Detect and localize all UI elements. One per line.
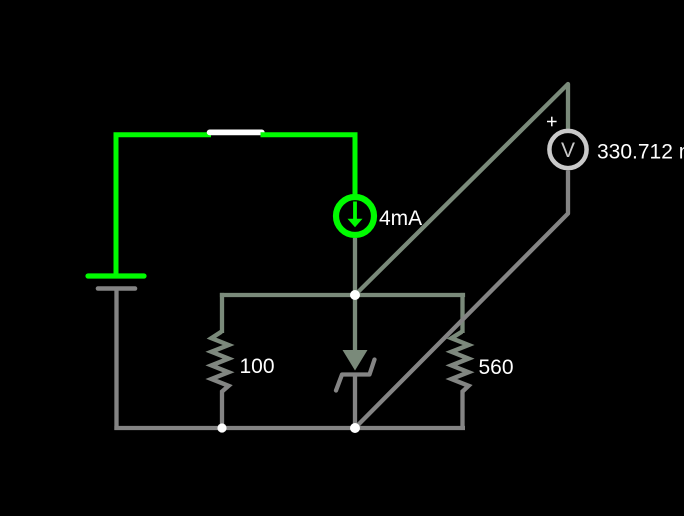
wire: battery - down to bottom-left corner (gray)	[114, 289, 118, 431]
battery V1 negative plate (short gray line)	[98, 286, 135, 291]
wire: voltmeter + probe diagonal (sage, node A to peak)	[355, 84, 568, 295]
voltmeter M1 (circle)	[549, 131, 586, 168]
wire: bottom ground rail (gray)	[114, 426, 465, 430]
wire: current source bottom to node A (sage)	[353, 238, 357, 295]
voltmeter + polarity mark	[547, 117, 557, 127]
wire: middle rail y=295 (sage)	[220, 293, 465, 297]
svg-text:V: V	[561, 139, 575, 162]
current source I1 (green circle)	[336, 197, 374, 235]
wire: 100-ohm bottom lead (gray)	[220, 391, 224, 429]
label 330.712 mV (voltmeter reading, clipped at right edge)	[597, 141, 684, 164]
wire: 100-ohm top lead (sage)	[220, 293, 224, 333]
current source I1 arrow (down)	[348, 202, 363, 228]
wire: zener top lead (sage)	[353, 295, 357, 352]
svg-text:4mA: 4mA	[379, 207, 422, 230]
label 560	[479, 356, 514, 379]
node B junction dot (355,428)	[350, 423, 360, 433]
resistor R2 560 (zigzag)	[451, 332, 468, 392]
node junction dot (222,428)	[217, 423, 226, 432]
wire: 560-ohm bottom lead (gray)	[460, 391, 464, 431]
wire: voltmeter - probe diagonal (gray, circle bottom to ground node)	[355, 171, 568, 429]
wire: zener bottom lead (gray)	[353, 375, 357, 429]
resistor R1 100 (zigzag)	[211, 332, 228, 392]
wire: top-left green L (battery + to switch left post)	[116, 135, 211, 274]
svg-text:330.712 mV: 330.712 mV	[597, 141, 684, 164]
switch S1 (closed, white lever)	[210, 130, 262, 136]
zener diode D1 cathode bar with bent ends (gray)	[336, 360, 375, 391]
label 100	[240, 355, 275, 378]
svg-text:100: 100	[240, 355, 275, 378]
voltmeter M1 letter V	[561, 139, 575, 162]
wire: switch right post to current source top (green)	[261, 135, 356, 197]
battery V1 positive plate (long green line)	[88, 273, 144, 278]
zener diode D1 anode triangle (sage)	[343, 350, 368, 371]
svg-text:560: 560	[479, 356, 514, 379]
node A junction dot (355,295)	[350, 290, 360, 300]
label 4mA	[379, 207, 422, 230]
wire: 560-ohm top lead with corner (sage)	[460, 293, 464, 333]
